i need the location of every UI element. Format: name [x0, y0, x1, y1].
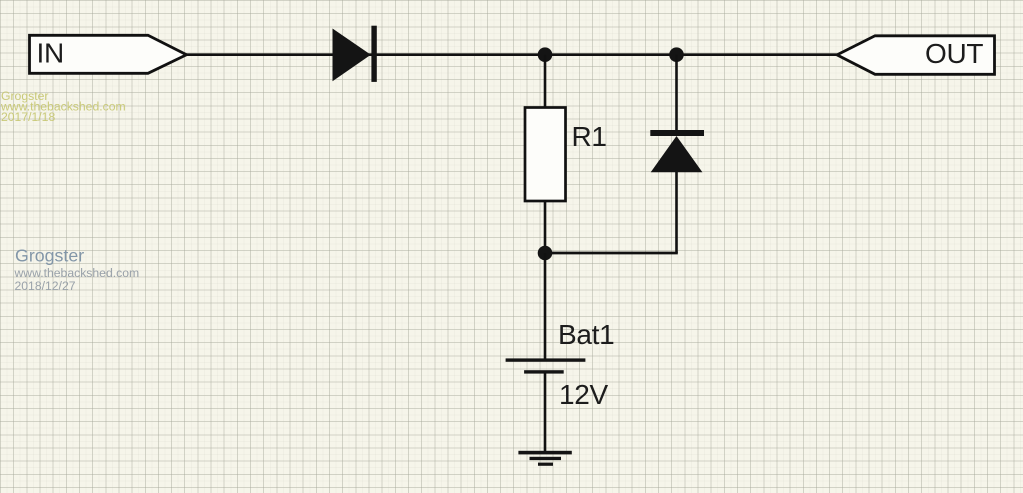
svg-text:2018/12/27: 2018/12/27 — [15, 279, 76, 293]
svg-text:R1: R1 — [572, 121, 607, 152]
svg-text:Grogster: Grogster — [15, 246, 84, 266]
svg-text:www.thebackshed.com: www.thebackshed.com — [14, 266, 140, 280]
svg-text:OUT: OUT — [925, 38, 983, 69]
svg-text:IN: IN — [37, 38, 64, 69]
svg-text:12V: 12V — [559, 379, 609, 410]
svg-text:Bat1: Bat1 — [558, 319, 614, 350]
svg-text:2017/1/18: 2017/1/18 — [1, 110, 55, 124]
